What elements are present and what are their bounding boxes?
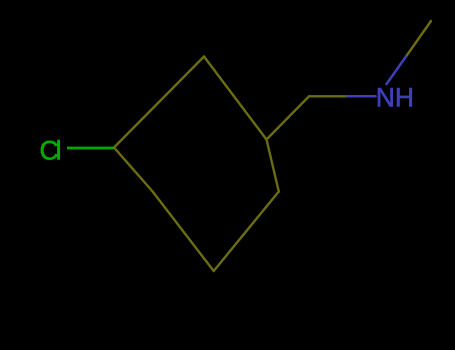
svg-text:NH: NH [376,82,414,112]
svg-text:Cl: Cl [40,136,61,166]
